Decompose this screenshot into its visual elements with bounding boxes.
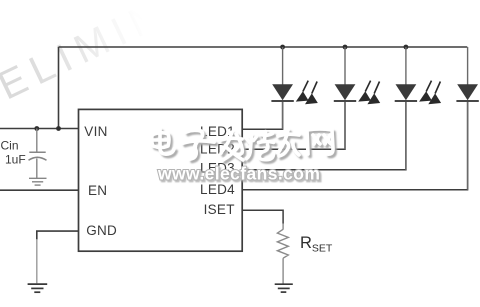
- svg-text:Cin: Cin: [1, 139, 19, 153]
- IC U1 body: [79, 109, 243, 251]
- svg-text:EN: EN: [88, 183, 107, 198]
- LED D3: [395, 47, 417, 170]
- char 烧: [247, 132, 274, 160]
- wire GND vertical lead: [36, 239, 38, 283]
- ground below RSET: [275, 284, 293, 292]
- node junction LED1 on top bus: [280, 45, 285, 50]
- capacitor Cin plates: [29, 151, 45, 153]
- LED D2: [334, 47, 356, 149]
- wire LED1 pin: [242, 101, 282, 129]
- node junction LED2 on top bus: [343, 45, 348, 50]
- watermark 电子发烧友网 (brush strokes approximation): [152, 129, 333, 160]
- char 网: [307, 129, 333, 154]
- char 友: [278, 130, 299, 156]
- char 发: [221, 132, 243, 160]
- resistor RSET: [277, 229, 288, 283]
- LED D1 light arrows: [296, 81, 318, 105]
- svg-text:1uF: 1uF: [5, 153, 26, 167]
- wire left drop from top bus to VIN rail: [58, 47, 60, 129]
- capacitor Cin bottom lead: [36, 159, 38, 179]
- svg-text:LED4: LED4: [200, 182, 235, 197]
- wire LED2 pin: [242, 101, 345, 149]
- svg-text:ISET: ISET: [204, 202, 235, 217]
- wire RSET top lead: [282, 224, 284, 230]
- LED D2 light arrows: [358, 81, 380, 105]
- LED D3 light arrows: [419, 81, 441, 105]
- wire ISET pin to RSET: [242, 210, 283, 223]
- wire top bus: [59, 46, 468, 48]
- char 子: [183, 130, 214, 159]
- char 电: [152, 129, 174, 154]
- wire EN input: [0, 189, 79, 191]
- svg-text:VIN: VIN: [84, 124, 107, 139]
- ground below Cin: [29, 178, 47, 185]
- LED D1: [271, 47, 293, 129]
- node junction LED3 on top bus: [404, 45, 409, 50]
- wire GND pin to ground: [37, 231, 79, 240]
- capacitor Cin lead from VIN rail: [36, 129, 38, 153]
- wire LED4 pin: [242, 101, 467, 190]
- ground below GND pin: [28, 284, 48, 292]
- LED D4: [456, 47, 478, 190]
- node junction top-bus drop: [56, 126, 61, 131]
- node junction Cin tap: [34, 126, 39, 131]
- wire VIN input rail: [0, 128, 79, 130]
- svg-text:www.elecfans.com: www.elecfans.com: [157, 164, 320, 184]
- wire LED3 pin: [242, 101, 406, 170]
- watermark PRELIMINARY (diagonal): [0, 0, 269, 139]
- svg-text:GND: GND: [86, 223, 117, 238]
